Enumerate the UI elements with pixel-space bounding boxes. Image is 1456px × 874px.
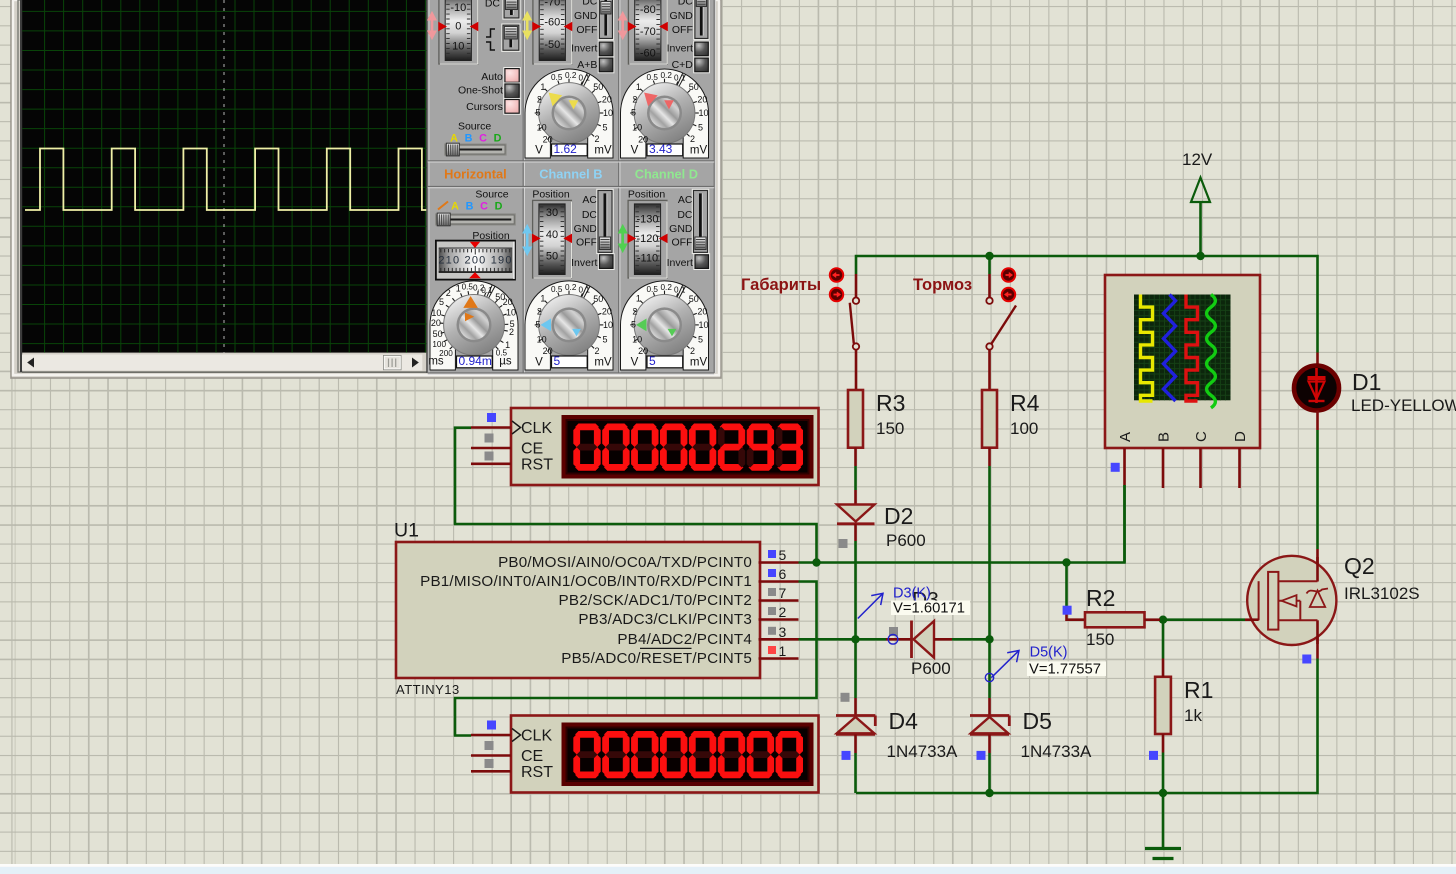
- svg-text:1: 1: [636, 294, 641, 304]
- svg-text:D4: D4: [889, 708, 919, 734]
- svg-text:10: 10: [506, 308, 516, 318]
- svg-text:0.5: 0.5: [551, 285, 563, 294]
- svg-text:50: 50: [689, 82, 699, 92]
- svg-text:10: 10: [431, 308, 441, 318]
- svg-text:50: 50: [546, 250, 558, 262]
- svg-text:20: 20: [638, 346, 648, 356]
- svg-text:2: 2: [690, 134, 695, 144]
- svg-text:0.5: 0.5: [551, 73, 563, 82]
- svg-text:1N4733A: 1N4733A: [1021, 742, 1093, 761]
- svg-text:5: 5: [602, 334, 607, 344]
- svg-text:mV: mV: [594, 357, 612, 369]
- svg-text:U1: U1: [394, 520, 419, 542]
- svg-text:V=1.77557: V=1.77557: [1029, 662, 1101, 678]
- svg-text:1: 1: [540, 294, 545, 304]
- svg-text:Габариты: Габариты: [741, 276, 821, 294]
- svg-text:PB1/MISO/INT0/AIN1/OC0B/INT0/R: PB1/MISO/INT0/AIN1/OC0B/INT0/RXD/PCINT1: [420, 573, 752, 590]
- svg-text:AC: AC: [678, 194, 693, 206]
- svg-text:mV: mV: [690, 145, 708, 157]
- svg-text:Cursors: Cursors: [466, 101, 503, 113]
- svg-text:Тормоз: Тормоз: [913, 276, 972, 294]
- svg-text:mV: mV: [594, 145, 612, 157]
- svg-text:150: 150: [876, 419, 904, 438]
- svg-text:50: 50: [433, 329, 443, 339]
- svg-text:10: 10: [603, 320, 613, 330]
- svg-text:D: D: [494, 133, 502, 145]
- svg-text:40: 40: [546, 229, 558, 241]
- svg-text:2: 2: [594, 346, 599, 356]
- svg-text:0.1: 0.1: [674, 74, 686, 83]
- svg-text:1k: 1k: [1184, 706, 1202, 725]
- svg-text:0.2: 0.2: [565, 283, 577, 292]
- svg-text:5: 5: [649, 354, 656, 368]
- svg-text:150: 150: [1086, 630, 1114, 649]
- svg-text:6: 6: [779, 566, 787, 582]
- svg-text:-80: -80: [640, 4, 656, 16]
- svg-text:3.43: 3.43: [649, 142, 673, 156]
- svg-text:5: 5: [535, 320, 540, 330]
- svg-text:100: 100: [1010, 419, 1038, 438]
- svg-text:AC: AC: [582, 194, 597, 206]
- svg-text:20: 20: [543, 346, 553, 356]
- svg-text:A: A: [450, 133, 458, 145]
- svg-text:0.94m: 0.94m: [459, 354, 492, 368]
- svg-text:PB0/MOSI/AIN0/OC0A/TXD/PCINT0: PB0/MOSI/AIN0/OC0A/TXD/PCINT0: [498, 554, 752, 571]
- svg-text:0.5: 0.5: [462, 282, 474, 291]
- svg-text:5: 5: [698, 334, 703, 344]
- svg-text:10: 10: [632, 335, 642, 345]
- svg-text:5: 5: [631, 320, 636, 330]
- svg-text:A+B: A+B: [577, 59, 597, 71]
- svg-text:2: 2: [537, 95, 542, 105]
- svg-text:P600: P600: [886, 531, 926, 550]
- svg-text:-60: -60: [640, 48, 656, 60]
- svg-text:GND: GND: [574, 223, 598, 235]
- svg-text:2: 2: [509, 327, 514, 337]
- svg-text:1: 1: [779, 643, 787, 659]
- svg-text:1: 1: [540, 82, 545, 92]
- svg-text:-120: -120: [636, 233, 658, 245]
- svg-text:10: 10: [698, 108, 708, 118]
- svg-text:D1: D1: [1352, 369, 1381, 395]
- svg-text:R4: R4: [1010, 390, 1040, 416]
- svg-text:5: 5: [554, 354, 561, 368]
- svg-text:-130: -130: [636, 213, 658, 225]
- svg-text:100: 100: [432, 340, 446, 349]
- svg-text:Position: Position: [628, 189, 666, 201]
- svg-text:Auto: Auto: [481, 71, 503, 83]
- svg-text:Q2: Q2: [1344, 553, 1375, 579]
- svg-text:2: 2: [779, 604, 787, 620]
- svg-text:Source: Source: [458, 121, 491, 133]
- svg-text:50: 50: [689, 294, 699, 304]
- svg-text:0.2: 0.2: [565, 71, 577, 80]
- svg-text:0.1: 0.1: [481, 286, 493, 295]
- svg-text:-50: -50: [544, 39, 560, 51]
- svg-text:V: V: [631, 357, 639, 369]
- svg-text:5: 5: [602, 122, 607, 132]
- svg-text:5: 5: [439, 297, 444, 307]
- svg-text:210 200 190: 210 200 190: [438, 255, 512, 267]
- svg-text:B: B: [1156, 432, 1173, 442]
- svg-text:-70: -70: [544, 0, 560, 9]
- svg-text:50: 50: [593, 294, 603, 304]
- svg-text:D5: D5: [1023, 708, 1052, 734]
- svg-text:Invert: Invert: [667, 257, 693, 269]
- svg-text:0.2: 0.2: [661, 71, 673, 80]
- svg-text:20: 20: [602, 306, 612, 316]
- svg-text:mV: mV: [690, 357, 708, 369]
- svg-text:V=1.60171: V=1.60171: [893, 601, 965, 617]
- svg-text:OFF: OFF: [576, 24, 597, 36]
- svg-text:ATTINY13: ATTINY13: [396, 682, 460, 697]
- svg-text:2: 2: [594, 134, 599, 144]
- svg-text:RST: RST: [521, 764, 553, 781]
- svg-text:Horizontal: Horizontal: [444, 166, 507, 181]
- svg-text:C+D: C+D: [672, 59, 694, 71]
- svg-text:Invert: Invert: [571, 43, 597, 55]
- svg-text:5: 5: [779, 547, 787, 563]
- svg-text:C: C: [480, 201, 488, 213]
- svg-text:Channel B: Channel B: [539, 166, 602, 181]
- svg-text:GND: GND: [574, 10, 598, 22]
- svg-text:GND: GND: [669, 223, 693, 235]
- svg-text:R2: R2: [1086, 585, 1115, 611]
- svg-text:D: D: [1232, 431, 1249, 442]
- svg-text:DC: DC: [485, 0, 501, 10]
- svg-text:0.5: 0.5: [647, 73, 659, 82]
- svg-text:-70: -70: [640, 26, 656, 38]
- svg-text:µs: µs: [499, 356, 512, 368]
- svg-text:2: 2: [690, 346, 695, 356]
- svg-text:Channel D: Channel D: [635, 166, 698, 181]
- svg-text:V: V: [535, 357, 543, 369]
- svg-text:1.62: 1.62: [554, 142, 578, 156]
- svg-text:IRL3102S: IRL3102S: [1344, 584, 1420, 603]
- svg-text:PB3/ADC3/CLKI/PCINT3: PB3/ADC3/CLKI/PCINT3: [578, 611, 752, 628]
- svg-text:1N4733A: 1N4733A: [887, 742, 959, 761]
- svg-text:0.1: 0.1: [579, 286, 591, 295]
- svg-text:DC: DC: [677, 209, 693, 221]
- svg-text:20: 20: [697, 306, 707, 316]
- svg-text:P600: P600: [911, 659, 951, 678]
- svg-text:-110: -110: [637, 253, 658, 265]
- svg-text:CE: CE: [521, 748, 543, 765]
- svg-text:Invert: Invert: [667, 43, 693, 55]
- svg-text:20: 20: [503, 297, 513, 307]
- svg-text:10: 10: [603, 108, 613, 118]
- svg-text:Invert: Invert: [571, 257, 597, 269]
- svg-text:C: C: [1193, 431, 1210, 442]
- svg-text:DC: DC: [678, 0, 694, 8]
- svg-text:5: 5: [535, 108, 540, 118]
- svg-text:B: B: [466, 201, 474, 213]
- svg-text:D3(K): D3(K): [893, 586, 931, 602]
- svg-text:R1: R1: [1184, 677, 1213, 703]
- svg-text:20: 20: [543, 134, 553, 144]
- svg-text:V: V: [631, 145, 639, 157]
- svg-text:10: 10: [698, 320, 708, 330]
- svg-text:R3: R3: [876, 390, 905, 416]
- svg-text:5: 5: [631, 108, 636, 118]
- svg-text:D5(K): D5(K): [1030, 645, 1068, 661]
- svg-text:-60: -60: [544, 17, 560, 29]
- svg-text:OFF: OFF: [576, 237, 597, 249]
- svg-text:20: 20: [602, 95, 612, 105]
- svg-text:10: 10: [632, 123, 642, 133]
- svg-text:Position: Position: [532, 189, 570, 201]
- svg-text:D: D: [495, 201, 503, 213]
- svg-text:CLK: CLK: [521, 420, 552, 437]
- svg-text:50: 50: [593, 82, 603, 92]
- svg-text:0.1: 0.1: [579, 74, 591, 83]
- svg-text:0: 0: [455, 21, 461, 33]
- svg-text:B: B: [465, 133, 473, 145]
- svg-text:D2: D2: [884, 503, 913, 529]
- svg-text:A: A: [1117, 432, 1134, 442]
- svg-text:-10: -10: [450, 2, 466, 14]
- svg-text:10: 10: [537, 335, 547, 345]
- svg-text:One-Shot: One-Shot: [458, 85, 503, 97]
- svg-text:GND: GND: [670, 10, 694, 22]
- svg-text:DC: DC: [582, 0, 598, 8]
- svg-text:1: 1: [636, 82, 641, 92]
- svg-text:C: C: [479, 133, 487, 145]
- svg-text:0.2: 0.2: [661, 283, 673, 292]
- svg-text:2: 2: [446, 288, 451, 298]
- svg-text:30: 30: [546, 207, 558, 219]
- svg-text:LED-YELLOW: LED-YELLOW: [1351, 396, 1456, 415]
- svg-text:DC: DC: [582, 209, 598, 221]
- svg-text:2: 2: [632, 95, 637, 105]
- svg-text:CE: CE: [521, 441, 543, 458]
- svg-text:CLK: CLK: [521, 728, 552, 745]
- svg-text:20: 20: [638, 134, 648, 144]
- svg-text:5: 5: [698, 122, 703, 132]
- svg-text:ms: ms: [428, 356, 444, 368]
- svg-text:10: 10: [452, 41, 464, 53]
- svg-text:20: 20: [697, 95, 707, 105]
- svg-text:12V: 12V: [1182, 150, 1213, 169]
- svg-text:PB5/ADC0/RESET/PCINT5: PB5/ADC0/RESET/PCINT5: [561, 650, 752, 667]
- svg-text:Source: Source: [475, 189, 508, 201]
- svg-text:PB2/SCK/ADC1/T0/PCINT2: PB2/SCK/ADC1/T0/PCINT2: [559, 592, 752, 609]
- svg-text:OFF: OFF: [672, 24, 693, 36]
- svg-text:RST: RST: [521, 456, 553, 473]
- svg-text:OFF: OFF: [672, 237, 693, 249]
- svg-text:10: 10: [537, 123, 547, 133]
- svg-text:0.5: 0.5: [647, 285, 659, 294]
- svg-text:V: V: [535, 145, 543, 157]
- svg-text:A: A: [451, 201, 459, 213]
- svg-text:3: 3: [779, 624, 787, 640]
- svg-text:1: 1: [456, 284, 461, 294]
- svg-text:2: 2: [632, 306, 637, 316]
- svg-text:PB4/ADC2/PCINT4: PB4/ADC2/PCINT4: [617, 631, 752, 648]
- svg-text:0.1: 0.1: [674, 286, 686, 295]
- svg-text:20: 20: [431, 318, 441, 328]
- svg-text:7: 7: [779, 585, 787, 601]
- svg-text:2: 2: [537, 306, 542, 316]
